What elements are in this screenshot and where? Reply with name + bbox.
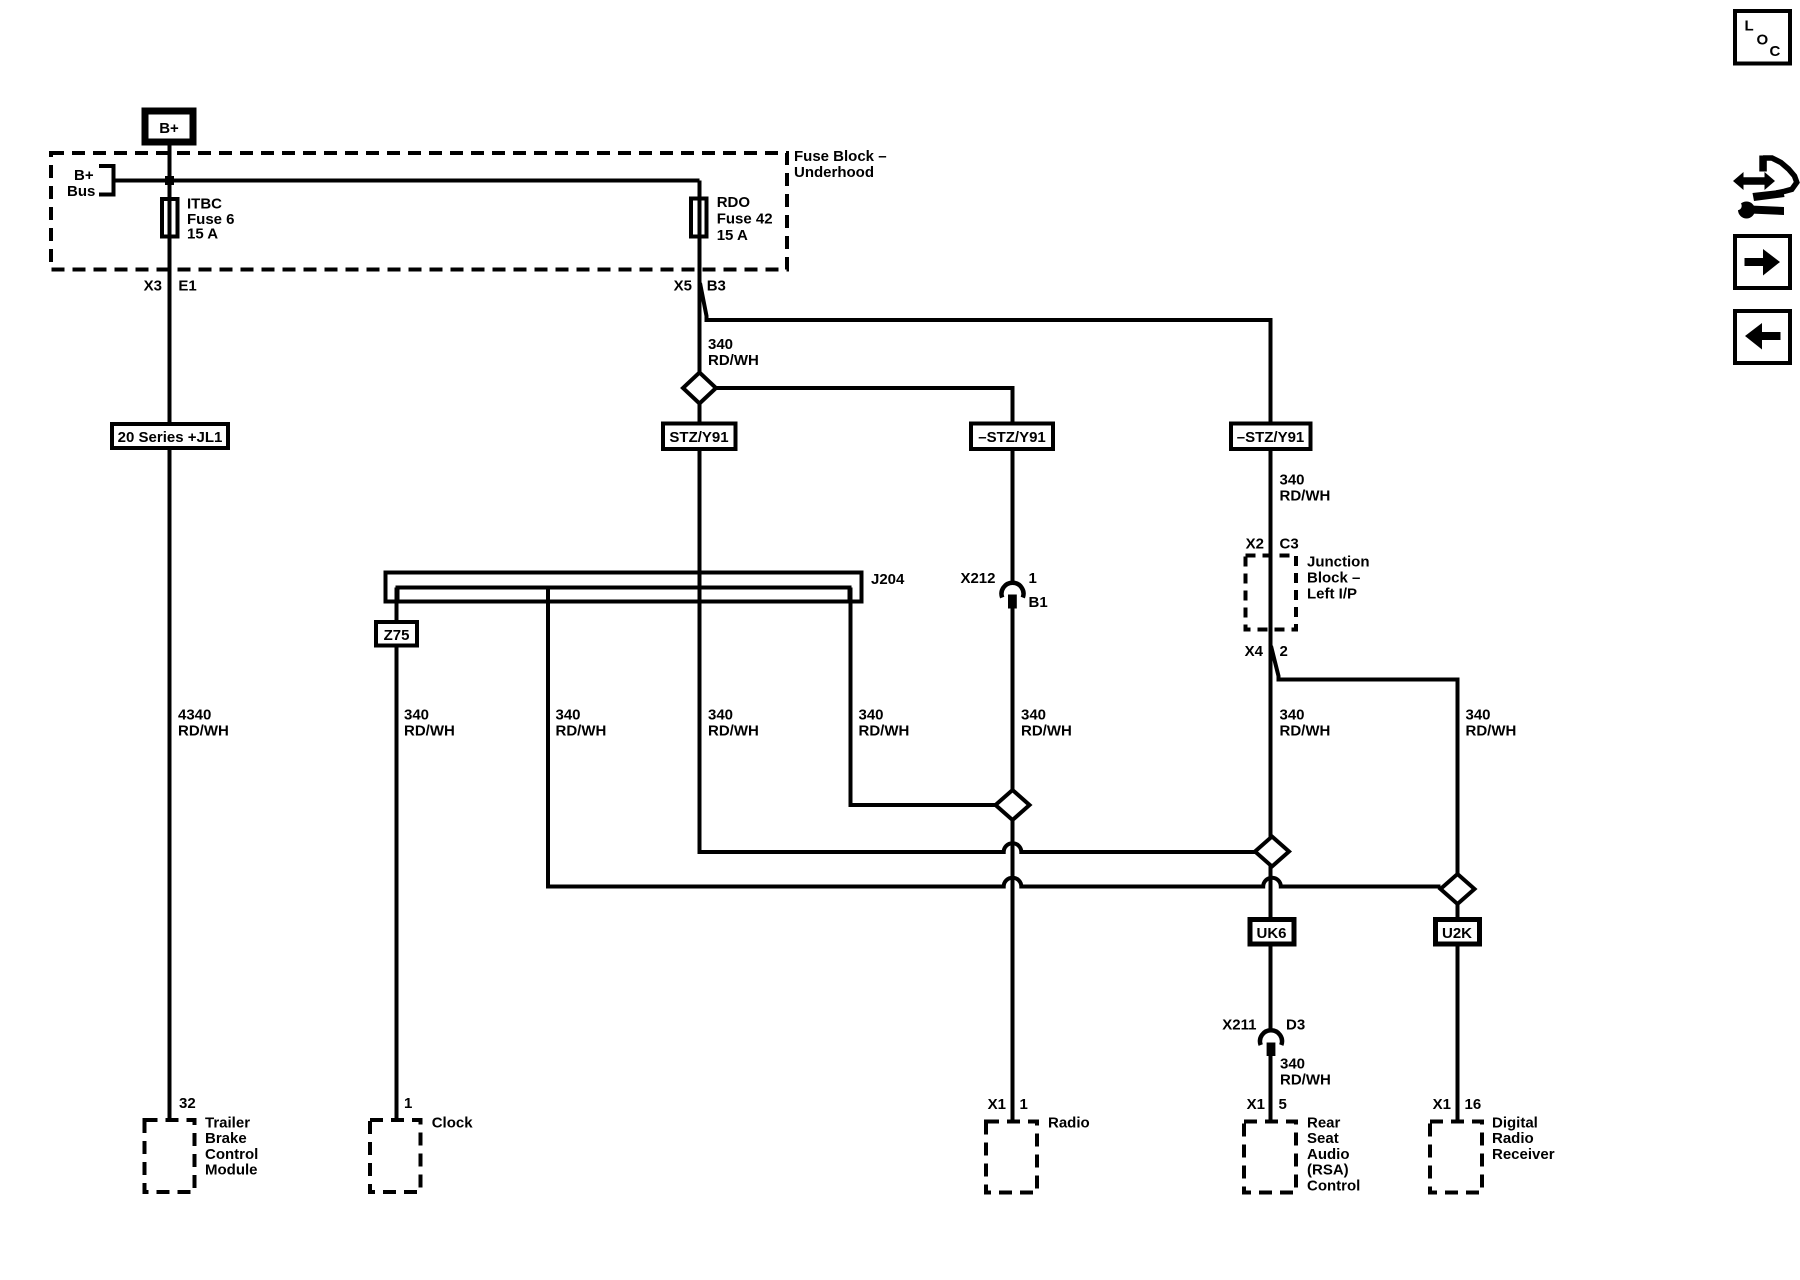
svg-text:RD/WH: RD/WH	[404, 723, 455, 740]
svg-text:J204: J204	[871, 571, 905, 588]
connector X212 pin 1 B1	[1002, 583, 1024, 598]
right arrow nav box	[1735, 236, 1790, 288]
splice diamond S3 (U2K column)	[1441, 874, 1475, 904]
svg-text:U2K: U2K	[1442, 925, 1472, 942]
label Z75 box	[376, 622, 417, 646]
wire branch X4 diagonal to U2K column	[1271, 646, 1458, 1120]
tool icon pointer outline	[1759, 156, 1767, 172]
label STZ/Y91 box	[663, 424, 736, 450]
label U2K box	[1436, 920, 1480, 945]
svg-text:Brake: Brake	[205, 1130, 247, 1147]
svg-text:Radio: Radio	[1492, 1130, 1534, 1147]
svg-text:Junction: Junction	[1307, 554, 1370, 571]
svg-text:RD/WH: RD/WH	[1021, 723, 1072, 740]
fuse ITBC Fuse 6	[162, 199, 178, 237]
svg-text:X4: X4	[1245, 643, 1264, 660]
svg-text:Digital: Digital	[1492, 1115, 1538, 1132]
label -STZ/Y91 right box	[1231, 424, 1311, 450]
svg-text:RD/WH: RD/WH	[859, 723, 910, 740]
svg-text:1: 1	[1029, 570, 1037, 587]
rear seat audio control dashed box	[1244, 1122, 1296, 1193]
svg-text:2: 2	[1280, 643, 1288, 660]
wire right column down to RSA control	[1269, 451, 1273, 1120]
wire middle column down to radio	[1011, 609, 1015, 1120]
svg-text:Fuse 42: Fuse 42	[717, 211, 773, 228]
svg-text:15 A: 15 A	[187, 226, 218, 243]
svg-text:Audio: Audio	[1307, 1146, 1350, 1163]
svg-text:E1: E1	[178, 278, 196, 295]
digital radio receiver dashed box	[1430, 1122, 1482, 1193]
svg-text:Left I/P: Left I/P	[1307, 586, 1357, 603]
svg-text:B+: B+	[159, 120, 179, 137]
svg-text:Clock: Clock	[432, 1115, 474, 1132]
svg-text:Seat: Seat	[1307, 1130, 1339, 1147]
svg-text:X212: X212	[960, 570, 995, 587]
svg-text:RD/WH: RD/WH	[1280, 1072, 1331, 1089]
radio dashed box	[986, 1122, 1037, 1193]
svg-text:Block –: Block –	[1307, 570, 1360, 587]
svg-text:X5: X5	[674, 278, 692, 295]
junction dot	[165, 176, 174, 185]
wire branch B3 diagonal to right -STZ/Y91	[700, 283, 1271, 422]
svg-text:RD/WH: RD/WH	[1280, 723, 1331, 740]
svg-text:RD/WH: RD/WH	[1280, 488, 1331, 505]
junction block left I/P dashed box	[1246, 556, 1297, 630]
svg-text:1: 1	[404, 1095, 412, 1112]
B+ terminal box	[145, 111, 193, 142]
svg-text:C3: C3	[1280, 536, 1299, 553]
svg-text:B1: B1	[1029, 594, 1048, 611]
connector X211 pin D3	[1260, 1030, 1282, 1045]
label 20 Series +JL1 box	[112, 424, 228, 448]
svg-text:Underhood: Underhood	[794, 164, 874, 181]
label -STZ/Y91 middle box	[971, 424, 1053, 450]
svg-text:340: 340	[1280, 1056, 1305, 1073]
svg-text:Control: Control	[1307, 1177, 1360, 1194]
splice diamond S1b (radio column)	[996, 790, 1030, 820]
LOC legend box	[1735, 11, 1790, 64]
splice diamond S1	[683, 373, 716, 404]
wire V4 J204 down then right to splice S3	[546, 588, 1441, 887]
svg-text:X1: X1	[988, 1096, 1006, 1113]
svg-text:340: 340	[556, 707, 581, 724]
left arrow nav box	[1735, 311, 1790, 363]
svg-text:Radio: Radio	[1048, 1115, 1090, 1132]
svg-text:O: O	[1757, 32, 1769, 49]
tool icon lower bar	[1753, 190, 1785, 202]
trailer brake control module dashed box	[145, 1120, 195, 1192]
B+ bus bracket	[99, 166, 114, 195]
svg-text:32: 32	[179, 1095, 196, 1112]
svg-text:1: 1	[1020, 1096, 1028, 1113]
J204 splice pack bus	[386, 573, 862, 602]
svg-text:340: 340	[1280, 707, 1305, 724]
svg-text:X3: X3	[144, 278, 162, 295]
svg-text:RDO: RDO	[717, 194, 751, 211]
svg-text:Bus: Bus	[67, 183, 95, 200]
svg-text:16: 16	[1465, 1096, 1482, 1113]
svg-text:RD/WH: RD/WH	[1466, 723, 1517, 740]
svg-text:B+: B+	[74, 167, 94, 184]
svg-text:20 Series +JL1: 20 Series +JL1	[118, 429, 223, 446]
fuse RDO Fuse 42	[691, 199, 707, 237]
svg-text:X211: X211	[1222, 1017, 1256, 1034]
wire V3 J204 to Z75 to clock	[395, 588, 399, 1119]
svg-text:Rear: Rear	[1307, 1115, 1341, 1132]
svg-text:UK6: UK6	[1256, 925, 1286, 942]
svg-text:5: 5	[1279, 1096, 1287, 1113]
label UK6 box	[1250, 920, 1294, 945]
svg-text:340: 340	[708, 707, 733, 724]
svg-text:340: 340	[404, 707, 429, 724]
svg-text:RD/WH: RD/WH	[708, 723, 759, 740]
svg-text:4340: 4340	[178, 707, 211, 724]
svg-text:D3: D3	[1286, 1017, 1305, 1034]
svg-text:X2: X2	[1246, 536, 1264, 553]
svg-text:340: 340	[1021, 707, 1046, 724]
svg-text:340: 340	[1280, 472, 1305, 489]
svg-text:–STZ/Y91: –STZ/Y91	[1237, 429, 1305, 446]
splice diamond S2 (UK6 column)	[1255, 837, 1289, 867]
clock dashed box	[370, 1120, 421, 1192]
svg-text:L: L	[1745, 18, 1754, 35]
svg-text:340: 340	[1466, 707, 1491, 724]
tool icon double arrow	[1733, 172, 1775, 190]
fuse block underhood dashed box	[51, 153, 787, 270]
svg-text:Z75: Z75	[384, 627, 410, 644]
wire V2 RDO fuse down through J204 then right to splice S2	[698, 181, 1256, 853]
svg-text:15 A: 15 A	[717, 227, 748, 244]
svg-text:X1: X1	[1247, 1096, 1265, 1113]
svg-text:(RSA): (RSA)	[1307, 1162, 1349, 1179]
wire V1 B+ to trailer brake	[168, 145, 172, 1118]
svg-text:Receiver: Receiver	[1492, 1146, 1555, 1163]
svg-text:Trailer: Trailer	[205, 1115, 250, 1132]
svg-text:Fuse Block –: Fuse Block –	[794, 148, 887, 165]
wire V5 J204 down then right to splice S1b	[849, 588, 996, 806]
svg-text:Control: Control	[205, 1146, 258, 1163]
svg-text:B3: B3	[707, 278, 726, 295]
svg-text:ITBC: ITBC	[187, 196, 222, 213]
svg-text:RD/WH: RD/WH	[556, 723, 607, 740]
svg-text:Module: Module	[205, 1162, 258, 1179]
svg-text:C: C	[1770, 43, 1781, 60]
wire splice S1 to middle -STZ/Y91	[716, 388, 1013, 422]
svg-text:340: 340	[859, 707, 884, 724]
svg-text:X1: X1	[1433, 1096, 1451, 1113]
wire B+ bus horizontal	[114, 179, 700, 183]
svg-text:STZ/Y91: STZ/Y91	[669, 429, 728, 446]
svg-text:RD/WH: RD/WH	[178, 723, 229, 740]
svg-text:340: 340	[708, 336, 733, 353]
svg-text:RD/WH: RD/WH	[708, 352, 759, 369]
tool icon wrench	[1738, 202, 1755, 219]
svg-text:–STZ/Y91: –STZ/Y91	[978, 429, 1046, 446]
wire middle column upper (box to connector X212)	[1011, 451, 1015, 582]
